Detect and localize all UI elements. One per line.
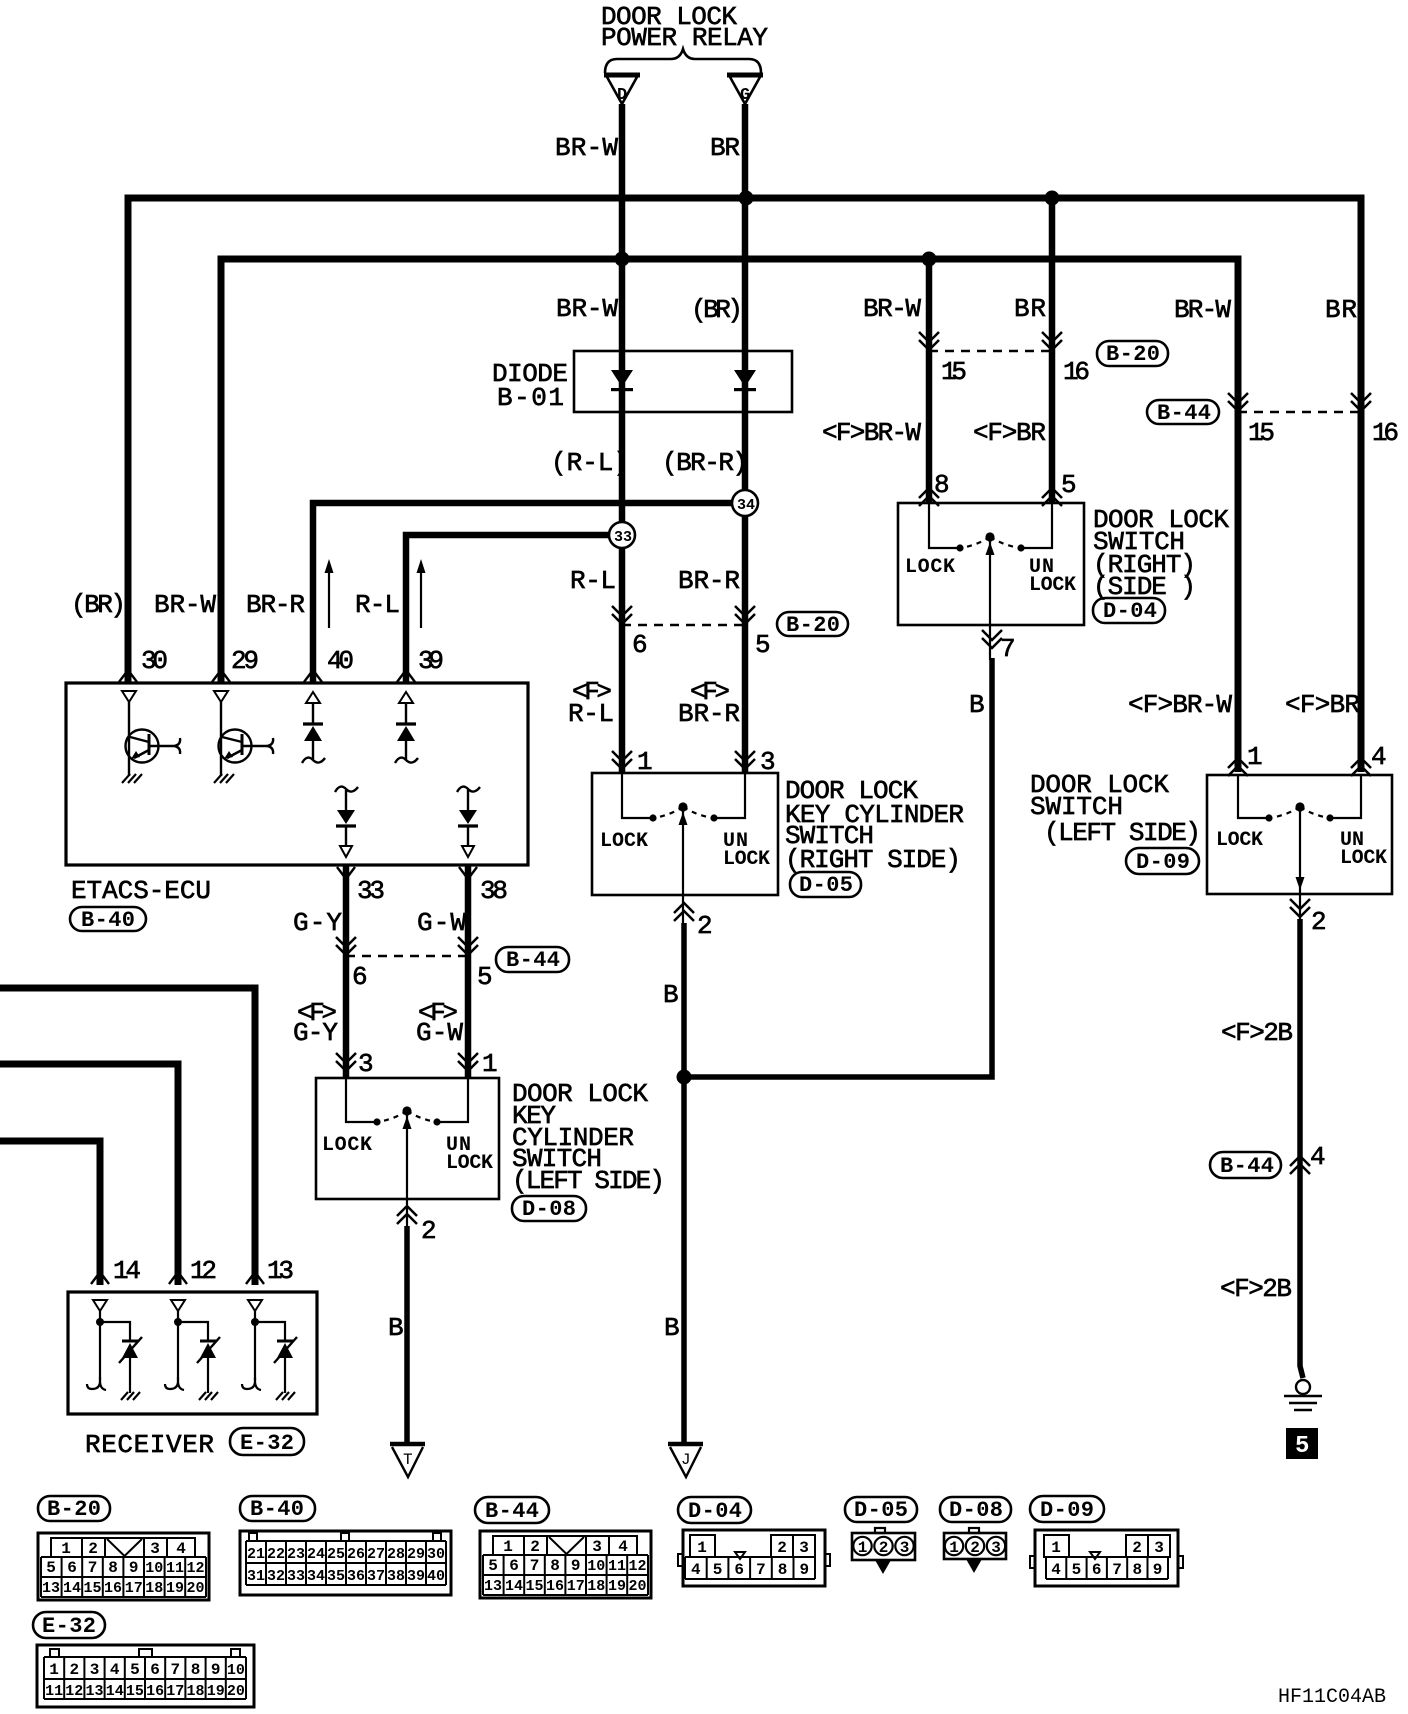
svg-text:B-40: B-40: [250, 1497, 304, 1522]
svg-text:34: 34: [307, 1568, 325, 1585]
svg-text:<F>2B: <F>2B: [1221, 1018, 1293, 1048]
node 33: [609, 522, 635, 548]
svg-text:BR-R: BR-R: [678, 699, 740, 729]
connector label (B-20): [1097, 341, 1168, 367]
svg-text:20: 20: [227, 1683, 245, 1700]
svg-text:3: 3: [592, 1538, 602, 1556]
svg-text:4: 4: [618, 1538, 628, 1556]
harness chevrons D-05 pin1: [612, 751, 632, 769]
svg-text:6: 6: [150, 1661, 160, 1679]
connector mark receiver pin13: [246, 1272, 264, 1284]
bus wire 1: ETACS pin30 up, across top, down to D-09 pin4: [128, 198, 1361, 772]
flow arrow up (pin40): [325, 559, 334, 628]
svg-text:1: 1: [503, 1538, 513, 1556]
svg-text:D-09: D-09: [1136, 850, 1190, 875]
junction bus1 x BR right branch: [1045, 191, 1060, 206]
svg-text:31: 31: [247, 1568, 265, 1585]
transistor Q2 (pin29): [214, 702, 273, 783]
wire from D-09 pin2 to ground: [1300, 919, 1303, 1378]
svg-text:2: 2: [421, 1216, 437, 1246]
wire BR-W branch to D-04 pin8: [926, 259, 933, 503]
svg-text:22: 22: [267, 1546, 285, 1563]
svg-text:7: 7: [756, 1561, 766, 1579]
svg-text:3: 3: [358, 1049, 374, 1079]
node 34: [732, 490, 758, 516]
D-09 descriptive label: [1030, 770, 1201, 848]
svg-text:1: 1: [49, 1661, 59, 1679]
svg-text:10: 10: [145, 1560, 163, 1577]
connector mark receiver pin12: [169, 1272, 187, 1284]
svg-text:11: 11: [166, 1560, 184, 1577]
svg-text:8: 8: [1132, 1561, 1142, 1579]
svg-text:11: 11: [608, 1558, 626, 1575]
svg-text:POWER RELAY: POWER RELAY: [601, 23, 768, 53]
svg-text:8: 8: [550, 1557, 560, 1575]
svg-text:LOCK: LOCK: [322, 1134, 372, 1157]
svg-text:ETACS-ECU: ETACS-ECU: [71, 876, 211, 906]
svg-text:19: 19: [608, 1578, 626, 1595]
svg-text:2: 2: [88, 1540, 98, 1558]
connector label (D-05): [845, 1497, 917, 1523]
svg-text:G-Y: G-Y: [293, 1018, 338, 1048]
connector label (B-20): [777, 612, 848, 638]
svg-text:13: 13: [484, 1578, 502, 1595]
bus wire 2: ETACS pin29 up, across, down to D-09 pin1: [221, 259, 1238, 772]
svg-text:<F>BR: <F>BR: [973, 418, 1046, 448]
D-09 switch interior: [1238, 775, 1361, 922]
junction bus1 x BR(G): [739, 191, 754, 206]
svg-text:25: 25: [327, 1546, 345, 1563]
svg-text:15: 15: [126, 1683, 144, 1700]
connector B-44 crossing (pin 4): [1210, 1142, 1326, 1179]
connector label (B-40): [70, 907, 146, 933]
svg-text:17: 17: [567, 1578, 585, 1595]
connector pinout D-05: [852, 1528, 915, 1574]
svg-text:2: 2: [970, 1539, 980, 1557]
wire B from D-05 pin2 down to joint J: [681, 923, 687, 1444]
svg-text:<F>2B: <F>2B: [1220, 1274, 1292, 1304]
junction bus2 x BR-W right branch: [922, 252, 937, 267]
SEC4: [0, 988, 317, 1460]
connector mark ETACS pin38: [459, 867, 477, 879]
SEC3: [1030, 690, 1392, 1460]
receiver channel 3 (pin13): [242, 1300, 297, 1400]
svg-text:E-32: E-32: [240, 1431, 294, 1456]
svg-text:LOCK: LOCK: [723, 848, 770, 871]
connector B-20 inline crossing (pins 15/16): [919, 332, 1090, 387]
svg-text:(BR-R): (BR-R): [662, 448, 748, 478]
svg-text:BR-R: BR-R: [678, 566, 740, 596]
diode D3 (to pin33, cathode down): [335, 787, 358, 857]
svg-text:6: 6: [352, 962, 368, 992]
connector label (B-44): [475, 1497, 549, 1524]
SEC1: [66, 559, 665, 1477]
svg-text:15: 15: [1248, 418, 1275, 448]
svg-text:30: 30: [427, 1546, 445, 1563]
svg-text:G-W: G-W: [416, 1018, 463, 1048]
svg-text:J: J: [681, 1451, 691, 1469]
ground symbol: [1284, 1380, 1322, 1410]
svg-text:4: 4: [1371, 742, 1387, 772]
svg-text:LOCK: LOCK: [1029, 574, 1076, 597]
svg-text:28: 28: [387, 1546, 405, 1563]
svg-text:17: 17: [125, 1580, 143, 1597]
svg-text:5: 5: [488, 1557, 498, 1575]
wire from node33 left and down to ETACS pin39: [406, 535, 622, 683]
svg-text:LOCK: LOCK: [1216, 829, 1263, 852]
svg-text:16: 16: [146, 1683, 164, 1700]
svg-text:7: 7: [530, 1557, 540, 1575]
svg-text:8: 8: [191, 1661, 201, 1679]
connector B-44 inline crossing (pins 15/16 far right): [1228, 393, 1399, 448]
wire from node34 left and down to ETACS pin40: [313, 503, 745, 683]
svg-text:8: 8: [778, 1561, 788, 1579]
D-04 UN LOCK label: [1029, 556, 1076, 597]
svg-text:1: 1: [697, 1539, 707, 1557]
svg-text:9: 9: [129, 1559, 139, 1577]
svg-text:2: 2: [697, 911, 713, 941]
svg-text:29: 29: [407, 1546, 425, 1563]
joint connector J triangle: [668, 1444, 703, 1477]
wire label (F) G-W: [416, 998, 463, 1048]
brace under relay label: [605, 49, 761, 73]
connector label (B-44): [1147, 400, 1219, 426]
svg-text:2: 2: [530, 1538, 540, 1556]
svg-text:<F>BR-W: <F>BR-W: [822, 418, 921, 448]
svg-text:9: 9: [799, 1561, 809, 1579]
diode B-01 label: [492, 359, 568, 413]
svg-text:B-44: B-44: [1220, 1154, 1274, 1179]
harness chevrons D-05 pin2: [674, 903, 694, 921]
harness chevrons D-04 pin5: [1042, 488, 1062, 506]
svg-text:B: B: [663, 980, 679, 1010]
svg-text:D-05: D-05: [799, 873, 853, 898]
svg-text:D-08: D-08: [949, 1498, 1003, 1523]
svg-text:5: 5: [130, 1661, 140, 1679]
connector mark ETACS pin33: [337, 867, 355, 879]
svg-text:4: 4: [110, 1661, 120, 1679]
svg-text:R-L: R-L: [570, 566, 616, 596]
junction bus2 x BR-W(D): [615, 252, 630, 267]
harness chevrons D-08 pin2: [397, 1206, 417, 1224]
svg-text:<F>BR: <F>BR: [1285, 690, 1360, 720]
svg-text:5: 5: [1295, 1433, 1309, 1460]
svg-text:T: T: [403, 1451, 413, 1469]
D-08 switch interior: [346, 1078, 468, 1230]
svg-text:D-08: D-08: [522, 1197, 576, 1222]
ground reference 5 black box: [1286, 1428, 1318, 1460]
svg-text:6: 6: [1092, 1561, 1102, 1579]
zener diode D1 (pin40, cathode up): [302, 703, 325, 763]
svg-text:13: 13: [85, 1683, 103, 1700]
svg-text:1: 1: [858, 1539, 868, 1557]
svg-text:BR: BR: [1014, 294, 1046, 324]
receiver channel 1 (pin14): [87, 1300, 142, 1400]
connector label (E-32): [230, 1428, 304, 1456]
svg-text:3: 3: [991, 1539, 1001, 1557]
svg-text:40: 40: [427, 1568, 445, 1585]
pin indicator triangle pin30: [122, 691, 136, 702]
svg-text:B-20: B-20: [786, 613, 840, 638]
svg-text:D-05: D-05: [854, 1498, 908, 1523]
harness chevrons D-05 pin3: [735, 751, 755, 769]
svg-text:26: 26: [347, 1546, 365, 1563]
wire label (F) BR-R: [678, 677, 740, 729]
relay terminal G triangle: [727, 75, 763, 105]
connector label (B-44): [496, 947, 569, 973]
svg-text:4: 4: [1310, 1142, 1326, 1172]
svg-text:2: 2: [777, 1539, 787, 1557]
D-05 UN LOCK label: [723, 830, 770, 871]
flow arrow up (pin39): [417, 559, 426, 628]
svg-text:18: 18: [145, 1580, 163, 1597]
harness chevrons D-09 pin4: [1351, 758, 1371, 776]
svg-text:(BR): (BR): [71, 590, 126, 620]
connector pinout D-08: [944, 1528, 1006, 1573]
svg-text:11: 11: [45, 1683, 63, 1700]
connector pinout D-09: [1030, 1530, 1183, 1586]
label DOOR LOCK POWER RELAY: [601, 2, 768, 53]
svg-text:B: B: [664, 1313, 680, 1343]
svg-text:33: 33: [614, 529, 632, 546]
connector pinout D-04: [678, 1530, 830, 1586]
svg-text:19: 19: [166, 1580, 184, 1597]
wire BR-W from relay D down to D-05 pin1: [619, 104, 626, 773]
svg-text:5: 5: [713, 1561, 723, 1579]
svg-text:BR-W: BR-W: [154, 590, 216, 620]
svg-text:B-44: B-44: [485, 1499, 539, 1524]
D-04 switch interior: [929, 503, 1052, 660]
svg-text:R-L: R-L: [568, 699, 614, 729]
svg-text:9: 9: [1153, 1561, 1163, 1579]
svg-text:3: 3: [90, 1661, 100, 1679]
svg-text:(RIGHT SIDE): (RIGHT SIDE): [785, 845, 961, 875]
wire to receiver pin12: [0, 1064, 178, 1285]
svg-text:6: 6: [734, 1561, 744, 1579]
connector B-20 inline crossing (pins 6/5): [612, 606, 771, 660]
D-09 UN LOCK label: [1340, 829, 1387, 870]
diode 2 (right): [734, 370, 756, 391]
svg-text:21: 21: [247, 1546, 265, 1563]
door lock key cylinder switch (right side) D-05 box: [592, 773, 778, 895]
connector mark pin29: [212, 670, 230, 682]
svg-text:23: 23: [287, 1546, 305, 1563]
svg-text:4: 4: [176, 1540, 186, 1558]
svg-text:27: 27: [367, 1546, 385, 1563]
connector label (D-09): [1126, 848, 1199, 875]
svg-text:35: 35: [327, 1568, 345, 1585]
svg-text:16: 16: [1372, 418, 1399, 448]
wire label (F) R-L: [568, 677, 614, 729]
svg-text:3: 3: [799, 1539, 809, 1557]
svg-text:<F>BR-W: <F>BR-W: [1128, 690, 1232, 720]
svg-text:B: B: [969, 690, 985, 720]
svg-text:13: 13: [267, 1256, 294, 1286]
svg-text:12: 12: [628, 1558, 646, 1575]
svg-text:38: 38: [387, 1568, 405, 1585]
svg-text:5: 5: [1072, 1561, 1082, 1579]
pin indicator triangle pin29: [214, 691, 228, 702]
svg-text:B-01: B-01: [497, 383, 564, 413]
svg-text:37: 37: [367, 1568, 385, 1585]
svg-text:1: 1: [1051, 1539, 1061, 1557]
connector label (D-08): [940, 1497, 1011, 1523]
svg-text:12: 12: [190, 1256, 217, 1286]
svg-text:9: 9: [571, 1557, 581, 1575]
SEC5: [33, 1496, 1386, 1709]
svg-text:14: 14: [113, 1256, 141, 1286]
svg-text:1: 1: [61, 1540, 71, 1558]
diode assembly B-01 box: [574, 351, 792, 412]
svg-text:12: 12: [186, 1560, 204, 1577]
svg-text:6: 6: [509, 1557, 519, 1575]
svg-text:3: 3: [1154, 1539, 1164, 1557]
svg-text:3: 3: [900, 1539, 910, 1557]
svg-text:D: D: [617, 86, 627, 105]
harness chevrons D-08 pin1: [458, 1053, 478, 1071]
svg-text:BR-R: BR-R: [246, 590, 305, 620]
RECEIVER box E-32: [68, 1292, 317, 1414]
ETACS-ECU box B-40: [66, 683, 528, 865]
svg-text:19: 19: [207, 1683, 225, 1700]
harness chevrons D-09 pin2: [1290, 899, 1310, 917]
connector mark pin39: [397, 670, 415, 682]
svg-text:24: 24: [307, 1546, 325, 1563]
svg-text:2: 2: [1311, 907, 1327, 937]
svg-text:E-32: E-32: [42, 1614, 96, 1639]
svg-text:1: 1: [1247, 742, 1263, 772]
svg-text:14: 14: [505, 1578, 523, 1595]
connector label (B-20): [38, 1496, 110, 1522]
svg-text:D-09: D-09: [1040, 1498, 1094, 1523]
svg-text:15: 15: [83, 1580, 101, 1597]
D-05 switch interior: [622, 773, 745, 926]
svg-text:LOCK: LOCK: [600, 830, 648, 853]
svg-text:5: 5: [755, 630, 771, 660]
svg-text:7: 7: [170, 1661, 180, 1679]
svg-text:(LEFT SIDE): (LEFT SIDE): [512, 1166, 665, 1196]
svg-text:7: 7: [88, 1559, 98, 1577]
svg-text:10: 10: [227, 1662, 245, 1679]
harness chevrons D-09 pin1: [1228, 758, 1248, 776]
svg-text:13: 13: [42, 1580, 60, 1597]
wire label (F) G-Y: [293, 998, 338, 1048]
svg-text:D-04: D-04: [688, 1499, 742, 1524]
svg-text:B-44: B-44: [506, 948, 560, 973]
svg-text:2: 2: [879, 1539, 889, 1557]
connector label (D-04): [1093, 598, 1165, 624]
svg-text:4: 4: [691, 1561, 701, 1579]
D-08 descriptive label: [512, 1079, 665, 1196]
svg-text:BR-W: BR-W: [863, 294, 921, 324]
svg-text:8: 8: [108, 1559, 118, 1577]
harness chevrons D-04 pin8: [919, 488, 939, 506]
svg-text:34: 34: [737, 497, 755, 514]
svg-text:HF11C04AB: HF11C04AB: [1278, 1686, 1386, 1709]
svg-text:BR: BR: [710, 133, 740, 163]
wire to receiver pin13: [0, 988, 255, 1285]
svg-text:LOCK: LOCK: [1340, 847, 1387, 870]
svg-text:12: 12: [65, 1683, 83, 1700]
svg-text:G-W: G-W: [417, 908, 466, 938]
svg-text:(BR): (BR): [691, 295, 743, 325]
svg-text:33: 33: [287, 1568, 305, 1585]
connector pinout B-20: [38, 1533, 209, 1600]
transistor Q1 (pin30): [122, 702, 180, 783]
svg-text:R-L: R-L: [355, 590, 400, 620]
svg-text:15: 15: [525, 1578, 543, 1595]
connector pinout B-40: [240, 1531, 451, 1595]
svg-text:20: 20: [186, 1580, 204, 1597]
junction B wires: [677, 1070, 692, 1085]
joint connector T triangle: [390, 1444, 425, 1477]
connector label (B-40): [240, 1496, 315, 1522]
svg-text:BR-W: BR-W: [555, 133, 618, 163]
svg-text:5: 5: [46, 1559, 56, 1577]
svg-text:1: 1: [949, 1539, 959, 1557]
harness chevrons D-08 pin3: [336, 1053, 356, 1071]
svg-text:6: 6: [632, 630, 648, 660]
svg-text:BR-W: BR-W: [1174, 295, 1231, 325]
svg-text:7: 7: [1000, 634, 1016, 664]
svg-text:18: 18: [587, 1578, 605, 1595]
svg-text:40: 40: [327, 646, 354, 676]
diode D4 (to pin38, cathode down): [457, 787, 480, 857]
connector mark receiver pin14: [91, 1272, 109, 1284]
svg-text:29: 29: [231, 646, 259, 676]
D-05 descriptive label: [785, 776, 964, 875]
svg-text:4: 4: [1051, 1561, 1061, 1579]
connector label (D-05): [790, 872, 861, 898]
wire BR branch to D-04 pin5: [1049, 198, 1056, 503]
connector mark pin30: [119, 670, 137, 682]
svg-text:B: B: [388, 1313, 404, 1343]
door lock switch (right side) D-04 box: [898, 503, 1084, 625]
svg-text:30: 30: [141, 646, 168, 676]
svg-text:15: 15: [941, 357, 967, 387]
svg-text:3: 3: [150, 1540, 160, 1558]
svg-text:1: 1: [482, 1049, 498, 1079]
svg-text:B-44: B-44: [1157, 401, 1211, 426]
svg-text:BR-W: BR-W: [556, 294, 618, 324]
connector pinout B-44: [480, 1531, 651, 1598]
connector label (D-09): [1030, 1496, 1104, 1523]
svg-text:LOCK: LOCK: [446, 1152, 493, 1175]
svg-text:D-04: D-04: [1103, 599, 1157, 624]
svg-text:B-40: B-40: [81, 908, 135, 933]
svg-text:G: G: [740, 86, 750, 105]
door lock key cylinder switch (left side) D-08 box: [316, 1078, 499, 1199]
svg-text:14: 14: [63, 1580, 81, 1597]
door lock switch (left side) D-09 box: [1207, 775, 1392, 894]
svg-text:7: 7: [1112, 1561, 1122, 1579]
connector pinout E-32: [37, 1645, 254, 1707]
svg-text:BR: BR: [1325, 295, 1357, 325]
svg-text:(R-L): (R-L): [551, 448, 629, 478]
connector label (D-04): [678, 1497, 751, 1524]
svg-text:RECEIVER: RECEIVER: [85, 1430, 214, 1460]
pin indicator triangle pin39: [399, 692, 413, 703]
svg-text:2: 2: [69, 1661, 79, 1679]
svg-text:2: 2: [1132, 1539, 1142, 1557]
svg-text:B-20: B-20: [1106, 342, 1160, 367]
svg-text:18: 18: [186, 1683, 204, 1700]
harness chevrons D-04 pin7: [982, 630, 1002, 648]
pin indicator triangle pin40: [306, 692, 320, 703]
svg-text:32: 32: [267, 1568, 285, 1585]
svg-text:9: 9: [211, 1661, 221, 1679]
wire BR from relay G down to D-05 pin3: [742, 104, 749, 772]
